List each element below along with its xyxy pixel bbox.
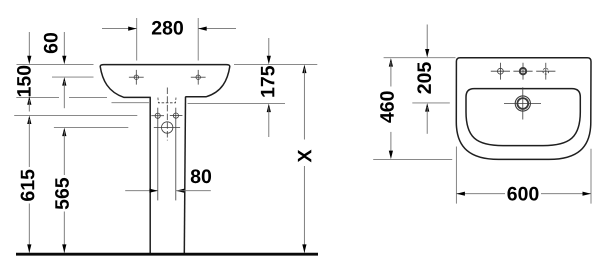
dim label 150 (17, 66, 31, 97)
dim 280 arrow right (198, 27, 207, 31)
arrow down to rim 60 (62, 56, 66, 64)
arrow up to bolt line 615 (27, 116, 31, 125)
plan tap hole right crosshair (536, 63, 555, 80)
dim 205 arrow up (425, 103, 429, 112)
dim label 600 (507, 187, 538, 201)
dim 600 extension left (455, 147, 457, 204)
dim 175 top tail (268, 38, 270, 56)
rail 565 middle (63, 132, 65, 176)
plan view outer outline (456, 58, 591, 160)
basin fixing hole right (191, 70, 206, 85)
basin front outline (100, 65, 230, 98)
plan tap hole left crosshair (491, 63, 510, 80)
basin fixing hole left (129, 70, 144, 85)
pedestal centerline dashed (166, 88, 168, 141)
drain circle horizontal arm (154, 127, 180, 129)
basin back bottom edge left stub (112, 102, 149, 104)
dim label 615 (21, 170, 35, 201)
rail 615 lower (28, 204, 30, 254)
ext line basin underside left 2 (69, 96, 107, 98)
rail 60/565 top tail (63, 32, 65, 56)
ext line basin underside left (16, 96, 59, 98)
dim X arrow down (302, 244, 306, 253)
ext line plan top (384, 57, 456, 59)
dim X rail upper (303, 69, 305, 140)
dim 280 arrow left (128, 27, 137, 31)
pedestal bolt hole right (170, 113, 183, 118)
plan tap hole center bold (513, 63, 532, 80)
dim 175 arrow down (267, 56, 271, 64)
ext line top-of-rim left (17, 63, 94, 65)
dim 600 line left (456, 193, 505, 195)
pedestal right edge (184, 97, 185, 253)
plan faucet hole double circle (504, 87, 541, 119)
dim 280 line right tail (198, 28, 236, 30)
arrow up to underside (27, 96, 31, 105)
dim 600 extension right (590, 149, 592, 204)
rail 615 middle (28, 119, 30, 167)
dim 600 arrow left (456, 192, 465, 196)
dim 600 line right (541, 193, 591, 195)
dim 280 extension line left (136, 18, 138, 61)
arrow down to rim (27, 56, 31, 64)
dim 80 arrow right (149, 189, 158, 193)
dim 460 rail lower (390, 132, 392, 155)
dim 205 top tail (426, 25, 428, 50)
ext line 205 faucet (412, 102, 450, 104)
dim label 460 (380, 91, 394, 122)
dim 205 bottom tail (426, 107, 428, 134)
arrow down to floor 565 (62, 244, 66, 253)
dim X arrow up (302, 65, 306, 74)
floor line (16, 253, 318, 256)
dim 460 arrow down (389, 151, 393, 160)
dim 280 extension line right (197, 18, 199, 61)
ext line fixing-hole height (52, 76, 94, 78)
dim 280 line left tail (102, 28, 137, 30)
dim label 175 (261, 66, 275, 97)
arrow up to hole line 60 (62, 77, 66, 86)
rail 150/615 top tail (28, 32, 30, 56)
dim X rail lower (303, 166, 305, 253)
ext line pedestal bolt height (14, 114, 137, 116)
dim 205 arrow down (425, 49, 429, 58)
arrow up to drain line 565 (62, 128, 66, 137)
ext line plan bottom (373, 158, 452, 160)
plan view inner rim (466, 89, 580, 146)
dim 460 rail upper (390, 62, 392, 87)
dim label 205 (417, 62, 431, 93)
dim 175 bottom tail (268, 108, 270, 138)
dim label 565 (55, 178, 69, 209)
ext line drain height (54, 127, 128, 129)
pedestal bolt hole left (151, 113, 164, 118)
dim 600 arrow right (583, 192, 592, 196)
dim 175 arrow up (267, 104, 271, 113)
dim 80 right tail (176, 190, 211, 192)
rail 565 lower (63, 212, 65, 254)
pedestal slot dashed (158, 98, 176, 103)
dim 80 left tail (125, 190, 158, 192)
dim label 80 (191, 169, 211, 183)
dim 80 arrow left (176, 189, 185, 193)
dim label 60 (44, 33, 58, 53)
pedestal drain circle (162, 122, 173, 133)
pedestal left edge (149, 97, 151, 253)
tail below underside (28, 100, 30, 112)
arrow down to floor 615 (27, 244, 31, 253)
dim label 280 (152, 21, 183, 35)
dim 460 arrow up (389, 58, 393, 67)
ext line rim right (234, 63, 317, 65)
pedestal bolt centerline right (175, 108, 177, 201)
ext line bracket height right (188, 102, 285, 104)
pedestal bolt centerline left (157, 108, 159, 201)
dim label X (298, 150, 311, 163)
tail below hole line (63, 81, 65, 108)
